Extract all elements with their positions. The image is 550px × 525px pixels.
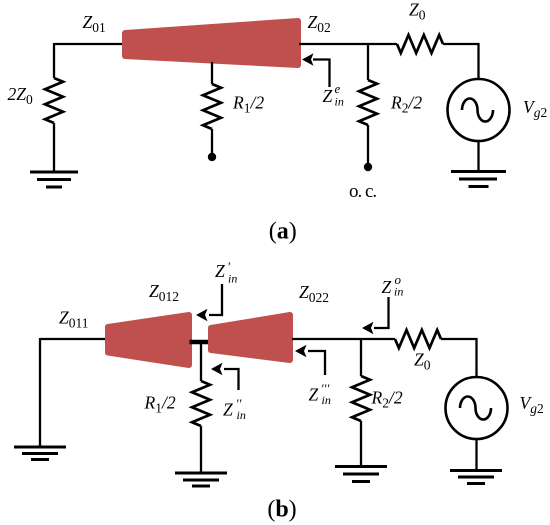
svg-text:in: in [394,285,403,299]
wire: below R1/2 to ground (b) [200,426,202,473]
wire: taper Z022 output to Z0 (b) [292,338,395,340]
wire: top-left horizontal [54,43,123,45]
node Z'''in arrow [295,345,325,375]
node: open-circuit dot under R1/2 [208,153,216,161]
label Zin^e [323,81,344,109]
node: o.c. dot [364,163,372,171]
svg-text:Z: Z [223,400,233,420]
node Z'in arrow [196,284,222,321]
wire: junction down to R1/2 (b) [200,342,202,381]
svg-text:Vg2: Vg2 [523,97,547,120]
tapered line Z012 [108,315,189,365]
resistor R2/2 (b) [352,376,370,421]
wire: left vertical to ground (b) [39,338,41,446]
wire: taper output to Z0 resistor [299,43,397,45]
wire: thick junction between tapers [190,340,210,345]
label Z^o_in [382,272,404,299]
label Z'''in [309,381,331,407]
svg-text:in: in [322,393,331,407]
resistor Z0 (b) [395,330,441,348]
wire: junction down to R2/2 [367,44,369,80]
svg-text:o. c.: o. c. [349,181,376,202]
svg-text:Z011: Z011 [59,308,88,331]
ground (b left) [14,447,66,460]
wire: left vertical down to resistor 2Z0 [53,43,55,78]
ground (b under R2/2) [335,467,387,482]
svg-text:R1/2: R1/2 [232,93,264,116]
wire: Z0 to source corner (b) [441,339,477,378]
svg-text:Z0: Z0 [414,350,431,373]
svg-text:Z0: Z0 [409,0,426,23]
wire: Z0 to source corner [443,44,479,80]
source Vg2 (a) [448,79,510,141]
node Zin^e arrow [302,53,330,87]
svg-text:R2/2: R2/2 [390,93,422,116]
wire: left horizontal (b) [40,338,107,340]
wire: below 2Z0 to ground [53,123,55,171]
svg-text:(b): (b) [267,497,296,523]
svg-text:Z: Z [323,86,333,106]
svg-text:2Z0: 2Z0 [8,84,33,107]
ground (a left) [30,172,78,187]
svg-text:Z01: Z01 [83,12,106,35]
tapered line Z022 [211,315,290,360]
resistor R1/2 (b) [192,381,210,426]
resistor R2/2 (a) [359,80,377,125]
resistor 2Z0 [45,78,63,123]
wire: source to ground (b) [475,438,477,470]
label Z'in [215,259,237,286]
svg-text:in: in [237,408,246,422]
svg-text:Vg2: Vg2 [520,393,544,416]
svg-text:(a): (a) [269,219,297,245]
svg-text:Z02: Z02 [308,12,331,35]
svg-text:R1/2: R1/2 [144,393,176,416]
wire: below R2/2 to ground (b) [360,421,362,466]
resistor Z0 (a) [397,35,443,53]
svg-text:Z012: Z012 [149,281,179,304]
svg-text:Z022: Z022 [299,282,329,305]
wire: source to ground [477,140,479,171]
svg-text:in: in [335,95,344,109]
source Vg2 (b) [446,377,508,439]
ground (b under R1/2) [175,473,227,486]
wire: from taper bottom down to R1/2 [211,62,213,84]
svg-text:in: in [228,272,237,286]
tapered line Z01-Z02 [125,21,298,65]
resistor R1/2 (a) [203,84,221,129]
wire: junction down to R2/2 (b) [360,339,362,376]
svg-text:Z: Z [215,261,225,281]
ground (b right) [450,471,502,484]
svg-text:Z: Z [382,277,392,297]
node Z''in arrow [211,363,239,390]
wire: below R1/2 to open node [211,129,213,153]
node Z^o_in arrow [362,297,389,334]
wire: below R2/2 to o.c. node [367,125,369,163]
label Z''in [223,396,246,422]
svg-text:Z: Z [309,385,319,405]
ground (a right) [451,172,506,187]
svg-text:R2/2: R2/2 [371,388,403,411]
